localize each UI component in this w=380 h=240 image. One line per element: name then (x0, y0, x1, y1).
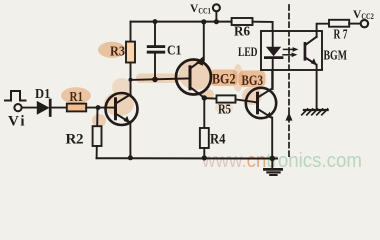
wire input to diode (22, 107, 37, 109)
resistor R4 (200, 128, 209, 148)
isolation dashed line (288, 5, 290, 157)
junction dot C1 top (153, 19, 158, 24)
bottom rail wire (97, 157, 277, 159)
resistor R7 (329, 20, 349, 27)
pulse input symbol (5, 91, 26, 101)
resistor R3 (126, 42, 135, 63)
resistor R5 (217, 95, 236, 102)
ground symbol bottom (264, 159, 281, 176)
svg-text:R6: R6 (234, 25, 250, 40)
junction dot BG3 emitter/rail (270, 156, 276, 162)
power terminal Vcc1 (213, 4, 220, 21)
junction dot R4/rail (202, 155, 207, 160)
resistor R6 (232, 18, 253, 25)
svg-text:R1: R1 (70, 90, 84, 105)
wire BG3 collector up to optocoupler (271, 70, 273, 89)
wire R4 to bottom rail (203, 148, 205, 158)
wire R2 to bottom rail (96, 146, 98, 158)
wire rail down to BG2 (203, 22, 205, 61)
svg-text:BG3: BG3 (242, 73, 264, 89)
wire photo emitter to chassis ground (316, 65, 318, 109)
svg-text:R3: R3 (110, 45, 125, 60)
power terminal Vcc2 (361, 20, 368, 27)
wire BG1 emitter down (129, 122, 131, 159)
wire R6 to optocoupler LED (253, 22, 273, 31)
svg-text:R4: R4 (210, 132, 226, 148)
junction dot BG2 emitter node (202, 95, 207, 100)
wire node down to R4 (203, 98, 205, 128)
wire R7 to Vcc2 (349, 23, 360, 25)
LED inside optocoupler (265, 31, 282, 89)
wire junction down to R2 (96, 108, 98, 127)
svg-text:BGM: BGM (324, 49, 348, 64)
wire R3 to node (130, 63, 132, 80)
svg-text:D1: D1 (35, 87, 50, 102)
svg-text:BG2: BG2 (212, 72, 236, 88)
node line to BG2 base (131, 78, 191, 80)
top rail wire (131, 21, 232, 23)
resistor R2 (93, 126, 102, 146)
transistor BG2 (176, 56, 211, 98)
svg-text:LED: LED (238, 45, 258, 59)
junction dot node/R3 (129, 78, 133, 82)
capacitor C1 (147, 22, 165, 80)
wire R1 to BG1 base (86, 107, 115, 109)
optocoupler box (261, 31, 322, 70)
resistor R1 (67, 104, 86, 112)
svg-text:R 7: R 7 (334, 28, 348, 43)
light arrows (283, 47, 298, 57)
transistor BG3 (246, 88, 276, 119)
junction dot BG1 emitter/rail (128, 155, 133, 160)
chassis ground symbol (hatched) (302, 109, 328, 115)
wire rail down to R3 (130, 22, 132, 42)
wire R5 to BG3 base (236, 99, 258, 102)
svg-text:R2: R2 (66, 131, 84, 147)
svg-text:R5: R5 (218, 102, 231, 117)
svg-text:C1: C1 (167, 44, 182, 59)
wire node to R5 (204, 97, 216, 99)
phototransistor BGM (304, 37, 317, 65)
svg-text:Vi: Vi (8, 114, 25, 130)
orange highlighter blobs (61, 42, 266, 127)
junction dot Vcc1/rail (214, 19, 219, 24)
diode D1 (37, 100, 67, 116)
junction dot BG2 collector/rail (201, 19, 206, 24)
node: junction dot R1/R2/base (96, 105, 101, 110)
transistor BG1 (106, 93, 138, 125)
junction dot C1 bottom (152, 77, 158, 83)
wire photo collector to R7 (317, 24, 329, 37)
wire BG1 collector up (130, 80, 132, 95)
input terminal Vi circle (14, 104, 21, 111)
wire BG3 emitter down to rail (271, 118, 273, 159)
arrowhead on dashed line (286, 112, 293, 120)
